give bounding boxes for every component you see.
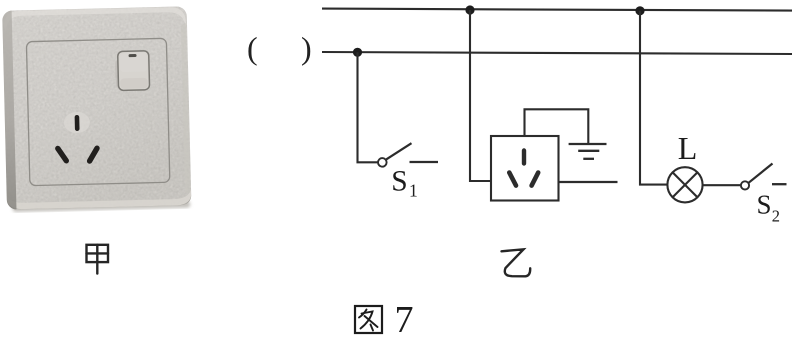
- wire: lamp to S2: [703, 184, 741, 186]
- recess around earth slot: [64, 112, 91, 134]
- junction node on bottom rail: [353, 48, 362, 57]
- label 乙: [502, 249, 531, 276]
- svg-text:7: 7: [395, 299, 414, 339]
- svg-text:): ): [301, 30, 312, 66]
- wire: S1 branch vertical: [358, 52, 378, 162]
- inner plate border: [26, 38, 169, 185]
- wire: socket right stub (open): [559, 181, 618, 183]
- photo drop shadow: [12, 201, 190, 212]
- caption 图 7: [355, 306, 382, 333]
- live slot (left, angled): [58, 148, 67, 161]
- socket earth pin slot: [522, 148, 526, 165]
- svg-text:S: S: [757, 190, 772, 220]
- earth slot (vertical): [75, 115, 80, 131]
- wire: top supply rail: [322, 9, 792, 11]
- wire: bottom supply rail: [322, 52, 792, 54]
- socket symbol box: [491, 136, 559, 201]
- junction node on top rail (socket branch): [465, 5, 474, 14]
- svg-text:(: (: [247, 30, 258, 66]
- wire: earth loop from socket top: [525, 109, 589, 143]
- left edge shade: [2, 11, 16, 210]
- neutral slot (right, angled): [89, 148, 97, 161]
- wire: lamp branch vertical: [640, 11, 667, 185]
- right edge shade: [181, 23, 190, 193]
- switch S1: [378, 143, 438, 167]
- bevel highlight top: [4, 7, 186, 32]
- rocker switch: [115, 59, 119, 87]
- ground symbol: [569, 144, 607, 159]
- socket face plate: [2, 6, 191, 209]
- svg-text:1: 1: [409, 181, 418, 201]
- switch indicator dot: [129, 54, 137, 57]
- junction node on top rail (lamp branch): [635, 6, 644, 15]
- label 甲: [87, 245, 109, 274]
- socket left pin slot: [509, 173, 516, 186]
- lamp L: [667, 167, 702, 202]
- bevel face bottom: [7, 189, 191, 210]
- bottom edge line: [7, 195, 191, 210]
- wire: socket branch vertical: [470, 10, 491, 181]
- wall socket photo (panel 甲): [2, 6, 191, 212]
- svg-text:2: 2: [772, 206, 780, 225]
- socket right pin slot: [532, 173, 539, 186]
- svg-text:S: S: [391, 165, 407, 197]
- svg-text:L: L: [678, 130, 698, 166]
- switch S2: [741, 164, 787, 190]
